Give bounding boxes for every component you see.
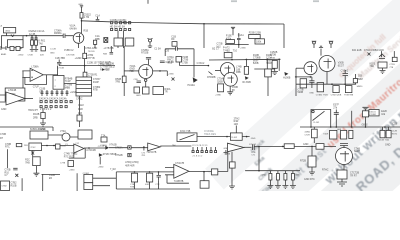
svg-text:C10B 7102: C10B 7102: [379, 140, 390, 142]
svg-text:V70A: V70A: [60, 130, 66, 133]
resistor R34a: [349, 130, 353, 138]
pin symbol 1 legs: [312, 41, 316, 48]
opamp U1A: [30, 68, 43, 81]
wire R26 gnd: [382, 68, 384, 71]
wire mid link: [225, 44, 249, 46]
svg-text:103: 103: [78, 112, 83, 115]
junction c19a: [258, 146, 260, 148]
svg-text:R7HC: R7HC: [322, 168, 329, 171]
header pins row1: [111, 22, 131, 24]
svg-text:C70A C30B4 GND: C70A C30B4 GND: [364, 49, 384, 52]
capacitor C8t: [146, 57, 151, 64]
svg-text:6AV6A: 6AV6A: [70, 27, 78, 30]
trimmer symbol T1: [149, 39, 152, 42]
wire rail 172: [116, 171, 174, 173]
svg-text:7R: 7R: [165, 91, 168, 94]
svg-text:R5B: R5B: [236, 71, 241, 74]
svg-text:HL90B: HL90B: [283, 76, 291, 79]
wire v427: [42, 174, 44, 191]
wire after C19: [254, 146, 300, 148]
ground col D: [290, 171, 296, 189]
resistor R17a: [134, 87, 140, 93]
svg-text:GND: GND: [1, 108, 7, 111]
switch contact: [312, 110, 314, 112]
arrow HL2: [284, 72, 288, 76]
wire v23: [22, 71, 24, 96]
IC X1: [53, 76, 64, 90]
svg-text:GND: GND: [385, 144, 391, 147]
wire D2 out: [109, 147, 148, 149]
junction 208: [208, 65, 210, 67]
wire fb left: [197, 136, 250, 138]
svg-text:7415C7B: 7415C7B: [146, 151, 156, 154]
svg-text:C70B: C70B: [270, 54, 276, 57]
ground g3: [380, 71, 386, 74]
opamp U2A inputs: [0, 95, 6, 102]
svg-text:520B: 520B: [253, 62, 259, 65]
wire h769: [295, 76, 312, 78]
svg-text:C70B2: C70B2: [83, 173, 90, 175]
DIP U10 rungs: [76, 81, 92, 93]
shield box outer: [2, 36, 24, 48]
junction rr1: [310, 126, 312, 128]
svg-text:L7041B: L7041B: [8, 89, 17, 92]
svg-text:27k: 27k: [333, 106, 338, 109]
svg-text:77B: 77B: [389, 67, 393, 69]
junction h835: [84, 83, 86, 85]
junction feed: [81, 20, 83, 22]
svg-text:2RB: 2RB: [33, 117, 38, 120]
svg-text:CY0A2: CY0A2: [341, 70, 349, 73]
junction A4: [278, 59, 280, 61]
comp bottoms row d: [41, 47, 45, 51]
tube V1 electrodes: [76, 34, 81, 48]
wire v279: [278, 59, 280, 71]
pad square 2 dot: [129, 154, 130, 155]
svg-text:6CB6A 7415B: 6CB6A 7415B: [30, 128, 45, 131]
svg-text:C70B: C70B: [28, 55, 34, 57]
wire v576: [57, 66, 59, 84]
svg-text:B2 C7: B2 C7: [212, 48, 219, 51]
arrow mid: [245, 76, 249, 80]
ground gR38: [33, 173, 39, 176]
ground V3: [227, 92, 233, 95]
wire feed down: [81, 18, 83, 33]
svg-text:C7C R: C7C R: [98, 146, 105, 148]
svg-text:C7B2: C7B2: [2, 186, 8, 188]
svg-text:MBB: MBB: [65, 86, 71, 89]
svg-text:741587B: 741587B: [174, 180, 184, 183]
svg-text:7R2: 7R2: [370, 65, 375, 68]
wire v382: [381, 51, 383, 57]
tube Q3 bar: [307, 64, 313, 72]
svg-text:7RB: 7RB: [115, 81, 120, 84]
junction bus hdr: [123, 22, 125, 24]
resistor colA: [269, 174, 272, 181]
opamp U6 fb: [167, 175, 189, 183]
junction c19b: [282, 146, 284, 148]
resistor R25: [353, 79, 357, 83]
svg-text:1.7M: 1.7M: [84, 16, 89, 19]
opamp U4 out: [84, 147, 105, 149]
svg-text:+GND: +GND: [18, 55, 24, 57]
capacitor C13: [334, 110, 339, 128]
comp X3 mark: [104, 38, 107, 42]
svg-text:C74B2 770B: C74B2 770B: [316, 94, 328, 96]
wire v167: [166, 71, 168, 76]
svg-text:2 1 8 2 1 2: 2 1 8 2 1 2: [40, 108, 52, 111]
opamp U6 inputs: [165, 168, 174, 175]
junction rail r1: [258, 170, 260, 172]
svg-text:D41 E1B: D41 E1B: [352, 49, 362, 52]
capacitor C18: [157, 172, 161, 181]
resistor R33b: [341, 130, 347, 139]
svg-text:+GND: +GND: [294, 174, 300, 176]
wire v236: [235, 126, 237, 133]
svg-text:R1R: R1R: [78, 108, 83, 111]
pin symbol 1: [313, 41, 316, 44]
svg-text:R10P: R10P: [93, 81, 99, 84]
svg-text:R7C: R7C: [5, 146, 10, 149]
resistor R26: [378, 62, 387, 68]
junction x2a: [46, 145, 48, 147]
wire h656: [180, 62, 209, 66]
capacitor C6: [237, 33, 241, 48]
svg-text:C122: C122: [78, 104, 84, 107]
junction u5 in: [143, 146, 145, 148]
junction rr5: [365, 126, 367, 128]
resistor R32: [312, 129, 318, 138]
ground g4: [40, 123, 46, 126]
comp row above header: [42, 90, 67, 96]
resistor R10: [249, 35, 261, 39]
svg-text:C72B R1: C72B R1: [88, 73, 98, 76]
svg-text:C72R: C72R: [305, 134, 311, 136]
power sym mid: [231, 27, 235, 35]
trimmer legs: [148, 38, 153, 47]
label box 100k: [255, 39, 264, 44]
tube V5 bars: [340, 151, 349, 172]
svg-text:C70B: C70B: [0, 133, 6, 136]
junction fr: [311, 146, 313, 148]
svg-text:+GND: +GND: [168, 74, 174, 76]
resistor R34c: [386, 130, 391, 137]
svg-text:R-102: R-102: [231, 137, 238, 139]
svg-text:12R: 12R: [234, 123, 239, 126]
svg-text:R7RMB: R7RMB: [207, 76, 216, 79]
svg-text:+GND: +GND: [98, 167, 104, 169]
svg-text:C12: C12: [75, 143, 80, 145]
junction fb l: [226, 136, 228, 138]
junction h842a: [331, 83, 333, 85]
svg-text:C5B: C5B: [134, 79, 139, 81]
svg-text:40R 40R: 40R 40R: [125, 164, 135, 167]
svg-text:+GND: +GND: [215, 94, 221, 96]
tube V2 cathode: [145, 79, 147, 81]
svg-text:C72B: C72B: [389, 64, 395, 66]
svg-text:40R: 40R: [145, 184, 149, 186]
wire row4 fr in: [300, 145, 336, 147]
svg-text:R1 B1B: R1 B1B: [243, 81, 252, 84]
resistor R27: [392, 57, 397, 61]
resistor R18: [176, 57, 182, 63]
wire v79: [79, 96, 81, 127]
svg-text:A: A: [1, 25, 3, 28]
svg-text:7B 520: 7B 520: [88, 51, 95, 53]
svg-text:TRES RES: TRES RES: [204, 133, 216, 136]
header pins row4: [192, 147, 217, 153]
capacitor C right: [160, 61, 165, 63]
comp T2: [101, 137, 107, 142]
svg-text:+GND: +GND: [240, 48, 246, 50]
resistor R29: [77, 115, 82, 121]
svg-text:C7R: C7R: [155, 184, 160, 186]
svg-text:520B: 520B: [298, 91, 304, 94]
svg-text:C10A: C10A: [266, 57, 272, 60]
svg-text:100k: 100k: [256, 40, 262, 43]
wire X2 out: [42, 145, 74, 147]
wire R34: [383, 127, 389, 130]
slash marks: [208, 72, 212, 75]
svg-text:P-BB C2: P-BB C2: [64, 49, 74, 52]
box X2: [29, 143, 42, 151]
junction rr4: [351, 126, 353, 128]
power sym r3: [362, 107, 368, 111]
resistor R5: [94, 40, 97, 44]
diode D2: [105, 146, 109, 150]
svg-text:GND: GND: [251, 138, 256, 140]
svg-text:GND R7C: GND R7C: [304, 178, 315, 181]
resistor R28b: [333, 86, 339, 93]
opamp U1A in marks: [31, 70, 33, 77]
svg-text:C10B 107: C10B 107: [87, 62, 98, 65]
junction n2: [31, 35, 33, 37]
resistor colB: [276, 174, 279, 181]
svg-text:HL90A: HL90A: [188, 84, 196, 87]
svg-text:C77B: C77B: [60, 163, 66, 165]
junction h842b: [344, 83, 346, 85]
svg-text:4602: 4602: [5, 31, 11, 33]
wire row2 h65: [59, 65, 115, 67]
diode D1: [102, 68, 105, 71]
svg-text:23B: 23B: [24, 145, 28, 147]
wire V2 left: [124, 70, 139, 72]
watermark wash band upper: [190, 0, 400, 240]
tube V4 bars: [324, 59, 332, 77]
resistor R9b box: [226, 40, 235, 44]
svg-text:C7B: C7B: [130, 184, 135, 186]
svg-text:+C7B HB: +C7B HB: [103, 47, 113, 50]
wire V2 down: [145, 81, 147, 87]
svg-text:42B: 42B: [40, 55, 44, 57]
svg-text:Rut 7RB: Rut 7RB: [100, 69, 109, 72]
svg-text:R7B: R7B: [93, 89, 98, 92]
svg-text:7HB: 7HB: [25, 161, 30, 164]
opamp U5 out: [160, 145, 191, 147]
wire h69: [254, 68, 275, 70]
svg-text:7R R7: 7R R7: [350, 175, 357, 178]
pad square 1: [128, 146, 131, 149]
svg-text:R1R2: R1R2: [392, 133, 398, 135]
DIP U10: [76, 77, 92, 96]
wire row3 left bus: [0, 127, 53, 131]
ground col B: [275, 171, 281, 189]
resistor R34: [380, 130, 385, 137]
x mark v167: [172, 78, 175, 81]
wire rail 1707: [245, 170, 300, 172]
resistor R20: [244, 66, 248, 74]
svg-text:+GND: +GND: [75, 57, 82, 60]
svg-text:ANB1: ANB1: [1, 53, 7, 56]
junction V2r: [159, 70, 161, 72]
resistor R54: [308, 156, 316, 167]
wire Q3 left: [296, 67, 304, 69]
capacitor C7: [57, 60, 61, 66]
opamp U4 fb: [69, 149, 85, 159]
resistor R19a: [218, 84, 224, 92]
box pair lower: [84, 183, 93, 190]
connector J stub: [1, 46, 6, 50]
svg-text:E5: E5: [49, 177, 53, 180]
svg-text:R9: R9: [171, 38, 175, 41]
svg-text:C1 2B: C1 2B: [50, 49, 56, 51]
svg-text:P23B 123B: P23B 123B: [249, 32, 262, 35]
svg-text:C1B 7BB: C1B 7BB: [55, 57, 65, 60]
tube V3 bars: [225, 66, 234, 84]
svg-text:C1A: C1A: [95, 14, 100, 17]
svg-text:7R1M P?: 7R1M P?: [28, 109, 39, 112]
resistor R53: [316, 144, 324, 150]
resistor R28: [41, 113, 45, 119]
resistor R38: [33, 157, 41, 166]
pin symbol 2: [330, 41, 333, 44]
junction u4a: [88, 147, 90, 149]
svg-text:6CG7: 6CG7: [338, 64, 345, 67]
svg-text:C7S2A: C7S2A: [115, 147, 123, 150]
wire V4 top: [319, 46, 323, 55]
resistor R16b: [83, 72, 87, 77]
svg-text:68M: 68M: [358, 78, 363, 81]
wire v396: [393, 51, 395, 57]
wire v846 mid: [84, 59, 86, 73]
wire V2 right: [153, 70, 168, 72]
watermark row check: [236, 14, 400, 240]
svg-text:7_R2: 7_R2: [110, 168, 116, 171]
svg-text:R7B: R7B: [130, 187, 135, 189]
shield box inner: [8, 40, 24, 48]
wire bus A: [209, 58, 281, 61]
wire v246: [245, 59, 247, 66]
opamp U1A feedback: [25, 75, 47, 85]
feedback loop top: [165, 47, 194, 66]
svg-text:T10: T10: [233, 50, 238, 53]
resistor colC: [284, 174, 287, 181]
svg-text:C7BA GND: C7BA GND: [85, 47, 97, 50]
wire row3 right bus: [300, 126, 400, 128]
svg-text:R1B: R1B: [84, 30, 89, 33]
wire v232 col: [231, 152, 233, 186]
svg-text:C10M1: C10M1: [370, 114, 378, 116]
svg-text:520B: 520B: [217, 80, 223, 83]
resistor R31: [362, 111, 368, 117]
wire V3 bottom: [229, 86, 231, 92]
junction rr6: [384, 126, 386, 128]
junction A3: [267, 59, 269, 61]
label box D614: [369, 110, 379, 116]
IC comparator box: [177, 133, 197, 142]
wire v194 drop: [193, 66, 195, 78]
top edge tick: [147, 0, 149, 4]
switch box: [311, 110, 331, 128]
junction A1: [231, 59, 233, 61]
svg-text:910R: 910R: [323, 134, 328, 136]
top edge smudge 2: [313, 0, 319, 2]
resistor R1: [31, 40, 34, 45]
svg-text:GND: GND: [303, 143, 309, 146]
wire v846 top: [84, 46, 86, 53]
wire v77: [76, 173, 78, 191]
junction h65 a: [84, 65, 86, 67]
svg-text:C7AC2: C7AC2: [197, 62, 205, 65]
resistor R16: [122, 76, 126, 83]
resistor R24: [317, 83, 324, 92]
resistor colD: [291, 174, 294, 181]
junction n3: [35, 35, 37, 37]
Y symbol 3: [379, 54, 385, 59]
box X5: [265, 69, 272, 77]
svg-text:C70BB: C70BB: [253, 57, 261, 60]
connector J2: [1, 181, 10, 191]
wire v267: [266, 59, 268, 69]
junction A2: [246, 59, 248, 61]
junction q2: [310, 76, 312, 78]
svg-text:C7S2B: C7S2B: [115, 154, 123, 157]
resistor R7 box: [125, 38, 134, 46]
opamp U2A out: [25, 98, 33, 100]
capacitor C2: [35, 36, 38, 40]
wire h842: [296, 83, 356, 85]
pin symbol 2 legs: [329, 41, 333, 48]
svg-text:C74C7B: C74C7B: [175, 162, 184, 165]
svg-text:877YB: 877YB: [87, 57, 95, 60]
opamp U5: [148, 143, 161, 151]
svg-text:HM20: HM20: [357, 86, 363, 88]
header2 pins row1: [40, 101, 72, 103]
svg-text:IC9C 74B: IC9C 74B: [180, 130, 191, 133]
svg-text:7C1P: 7C1P: [65, 80, 71, 83]
svg-text:R72B: R72B: [300, 159, 306, 162]
svg-text:C7 10B: C7 10B: [57, 68, 65, 70]
IC U3: [30, 131, 48, 139]
capacitor C3: [63, 34, 73, 39]
tube Q3: [304, 62, 317, 75]
resistor R17b: [143, 87, 150, 94]
x mark X2: [31, 151, 34, 157]
svg-text:+GND: +GND: [70, 91, 77, 94]
wire R54 gnd: [311, 167, 313, 172]
svg-text:C1B: C1B: [392, 122, 397, 125]
opamp U7 out: [244, 146, 252, 148]
opamp U7: [228, 143, 244, 152]
pad square 2: [128, 153, 131, 156]
comp V5A: [62, 133, 70, 141]
wire h174: [42, 173, 61, 175]
switch blade: [313, 111, 325, 120]
diode D3: [99, 153, 103, 157]
svg-text:GND: GND: [50, 53, 55, 55]
junction rail c: [158, 171, 160, 173]
svg-text:770B 98B: 770B 98B: [344, 95, 354, 97]
